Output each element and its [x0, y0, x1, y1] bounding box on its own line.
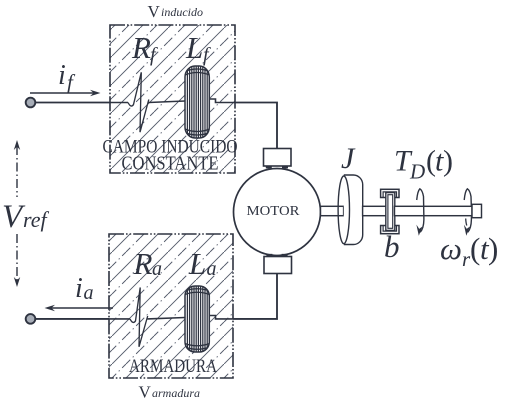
label CONSTANTE	[122, 153, 219, 175]
svg-text:inducido: inducido	[161, 5, 203, 19]
svg-text:J: J	[341, 142, 356, 175]
label Lf	[185, 30, 211, 66]
svg-text:armadura: armadura	[152, 386, 200, 400]
motor body M	[234, 169, 321, 256]
inductor La coil	[185, 284, 210, 354]
terminal armature	[26, 314, 36, 324]
label i_f	[58, 60, 76, 94]
svg-text:V: V	[148, 2, 161, 21]
svg-text:ARMADURA: ARMADURA	[129, 356, 217, 377]
inertia disc J	[338, 175, 363, 245]
terminal field	[26, 98, 36, 108]
svg-text:(: (	[470, 231, 480, 266]
bearing b	[381, 189, 399, 233]
label ARMADURA	[129, 356, 217, 377]
svg-text:L: L	[188, 246, 206, 281]
svg-text:i: i	[75, 273, 83, 304]
Vref dashed arrow up	[14, 140, 20, 197]
Vref dashed arrow down	[14, 234, 20, 287]
svg-text:a: a	[207, 258, 217, 280]
svg-text:): )	[488, 231, 498, 266]
speed rotation arrow omega_r	[464, 189, 472, 236]
svg-text:ω: ω	[440, 231, 462, 266]
brush contact marks top	[266, 166, 288, 168]
wire field box to motor	[235, 103, 277, 149]
svg-text:a: a	[152, 258, 162, 280]
shaft bearing to end	[395, 206, 473, 215]
svg-text:b: b	[384, 229, 400, 264]
brush top	[264, 149, 292, 167]
shaft J to bearing	[363, 206, 388, 215]
label b	[384, 229, 400, 264]
inductor Lf coil	[185, 64, 210, 140]
label i_a	[75, 273, 94, 304]
label La	[188, 246, 217, 281]
label CAMPO INDUCIDO	[103, 137, 238, 158]
svg-text:a: a	[84, 282, 94, 304]
current arrow i_a	[45, 305, 114, 311]
resistor Rf	[128, 72, 149, 132]
brush bottom	[264, 257, 292, 274]
svg-text:L: L	[185, 30, 203, 65]
wire armature box to motor	[233, 274, 277, 319]
label Vref	[2, 199, 50, 235]
shaft end cap	[472, 204, 482, 217]
label V_armadura	[139, 383, 201, 402]
label Rf	[131, 30, 158, 66]
current arrow i_f	[30, 90, 101, 96]
svg-text:R: R	[131, 30, 151, 65]
wire i_a (terminal to armature box)	[35, 318, 109, 320]
field box CAMPO INDUCIDO CONSTANTE	[110, 25, 235, 173]
svg-text:ref: ref	[23, 207, 50, 232]
svg-text:CONSTANTE: CONSTANTE	[122, 153, 219, 175]
armature box ARMADURA	[109, 234, 233, 378]
torque rotation arrow T_D	[416, 189, 424, 236]
svg-text:D: D	[409, 160, 425, 184]
svg-text:R: R	[133, 246, 153, 281]
svg-text:MOTOR: MOTOR	[247, 204, 301, 219]
resistor Ra	[130, 288, 148, 347]
brush contact marks bottom	[266, 254, 287, 256]
svg-text:i: i	[58, 60, 66, 91]
label J	[341, 142, 356, 175]
shaft motor to J	[321, 206, 344, 215]
label T_D(t)	[394, 145, 453, 184]
label omega_r(t)	[440, 231, 498, 271]
wire i_f (terminal to field box)	[35, 102, 110, 104]
label V_inducido	[148, 2, 204, 21]
label Ra	[133, 246, 163, 281]
svg-text:): )	[443, 145, 453, 178]
wire inside armature box	[109, 316, 233, 319]
wire inside field box	[110, 99, 235, 103]
svg-text:V: V	[139, 383, 152, 402]
